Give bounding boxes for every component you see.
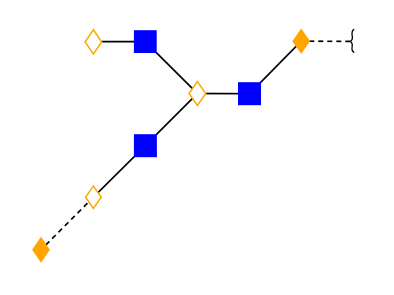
wire D2-S3	[145, 94, 197, 146]
open diamond D1	[85, 30, 102, 54]
filled diamond D3	[293, 30, 309, 53]
open diamond D4	[86, 186, 102, 208]
bracket (reducing end brace)	[350, 29, 354, 52]
open diamond D2 (central)	[189, 82, 206, 106]
square S3 (GlcNAc)	[134, 134, 157, 157]
wire D1-S1	[93, 41, 145, 43]
dashed wire D3-bracket	[309, 40, 350, 42]
filled diamond D5	[33, 238, 49, 261]
dashed wire D4-D5	[46, 197, 94, 245]
wire S1-D2	[145, 42, 197, 94]
square S1 (GlcNAc)	[134, 30, 157, 53]
square S2 (GlcNAc)	[238, 82, 261, 105]
wire D2-S2	[197, 93, 249, 95]
wire S2-D3	[250, 41, 302, 93]
wire S3-D4	[93, 146, 145, 198]
